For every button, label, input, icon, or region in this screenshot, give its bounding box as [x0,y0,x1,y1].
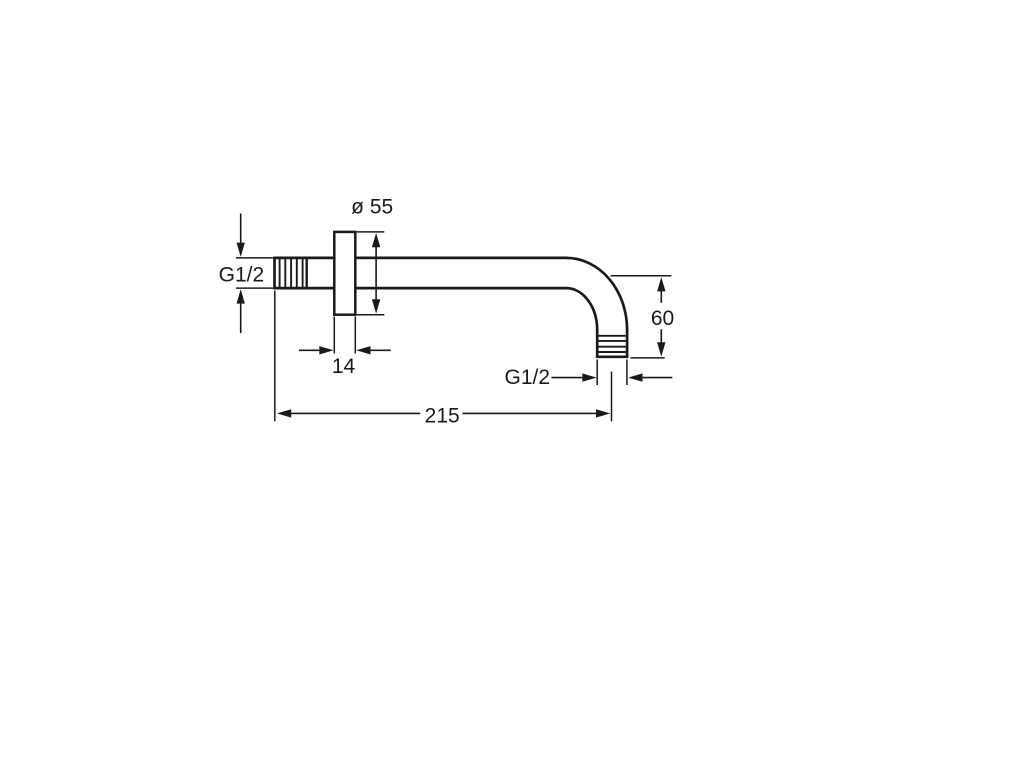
dimension 14 (flange depth): extension lines [333,317,335,354]
wall thread right boundary [306,257,308,289]
svg-text:60: 60 [651,307,674,330]
shower arm bottom outline (tube bottom edge, inner bend, inner vertical edge) [274,288,597,357]
dimension 215: left arrow [277,409,291,417]
dimension ø55 (flange): dimension line with arrows [375,244,377,303]
dimension 60 (outlet drop): extension lines [611,275,672,277]
dimension G1/2 (outlet thread): extension lines [596,360,598,386]
dimension 14: right arrow [369,349,391,351]
dimension G1/2 (wall thread): extension lines [236,257,273,259]
dimension ø55 (flange): extension lines [357,231,385,233]
outlet thread hatch lines [598,336,626,352]
svg-text:215: 215 [425,404,460,427]
dimension 215: right arrow [462,412,598,414]
dimension 60: lower arrow [660,329,662,344]
svg-text:14: 14 [332,355,356,378]
wall thread hatch lines [280,258,303,288]
dimension 215 (arm length): extension lines [274,291,276,422]
outlet-end cap of vertical tube [596,355,629,358]
wall-end cap of tube [273,257,276,290]
svg-text:G1/2: G1/2 [219,263,265,286]
svg-text:G1/2: G1/2 [505,366,551,389]
dimension G1/2 (wall thread): upper arrow [240,214,242,245]
dimension 60: upper arrow [660,289,662,303]
dimension G1/2 (outlet thread): arrow pointing left [641,377,672,379]
dimension G1/2 (wall thread): lower arrow [240,302,242,333]
svg-text:ø 55: ø 55 [351,196,393,219]
wall flange (white fill covers tube lines) [334,232,355,315]
shower arm top outline (tube top edge, outer bend, outer vertical edge) [274,258,627,357]
dimension 14: left arrow [299,349,321,351]
dimension G1/2 (outlet thread): leader arrow pointing right [552,377,585,379]
